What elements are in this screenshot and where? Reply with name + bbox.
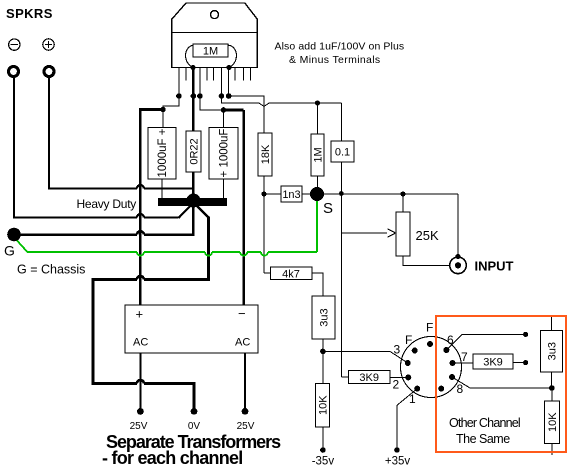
svg-text:0.1: 0.1 [335,147,350,159]
svg-text:3K9: 3K9 [359,372,379,384]
svg-text:10K: 10K [547,412,559,432]
svg-text:& Minus Terminals: & Minus Terminals [289,54,381,66]
svg-text:25V: 25V [237,421,255,432]
svg-text:G: G [4,243,15,259]
svg-text:3u3: 3u3 [319,308,331,326]
svg-text:6: 6 [447,333,454,347]
svg-text:- for each channel: - for each channel [102,448,243,467]
svg-text:S: S [323,200,333,217]
svg-text:4k7: 4k7 [282,268,300,280]
svg-text:Heavy Duty: Heavy Duty [77,197,137,211]
svg-text:8: 8 [457,382,464,396]
svg-text:The Same: The Same [456,432,510,446]
svg-text:3: 3 [394,343,401,357]
svg-text:0V: 0V [188,421,201,432]
svg-text:SPKRS: SPKRS [6,6,53,21]
svg-text:1: 1 [409,392,416,406]
svg-text:25V: 25V [130,421,148,432]
svg-text:F: F [426,321,433,335]
svg-text:Also add 1uF/100V on Plus: Also add 1uF/100V on Plus [275,41,405,53]
svg-text:1000uF +: 1000uF + [157,128,169,177]
svg-text:+35v: +35v [385,456,411,468]
svg-text:+ 1000uF: + 1000uF [219,129,231,178]
svg-text:3K9: 3K9 [483,357,503,369]
svg-text:1n3: 1n3 [282,189,300,201]
svg-text:Other Channel: Other Channel [449,416,520,430]
svg-text:-35v: -35v [312,456,335,468]
svg-text:F: F [405,333,412,347]
svg-text:7: 7 [461,350,468,364]
svg-text:18K: 18K [260,144,272,164]
svg-text:25K: 25K [416,228,439,243]
svg-text:10K: 10K [318,395,330,415]
svg-text:AC: AC [133,337,148,349]
svg-text:3u3: 3u3 [547,342,559,360]
svg-text:+: + [136,307,144,322]
svg-text:0R22: 0R22 [189,138,201,164]
svg-text:INPUT: INPUT [475,258,514,273]
svg-text:1M: 1M [203,46,218,58]
svg-text:G = Chassis: G = Chassis [17,263,85,277]
svg-text:−: − [238,306,246,321]
svg-text:1M: 1M [313,147,325,162]
svg-text:AC: AC [235,337,250,349]
svg-text:2: 2 [393,378,400,392]
